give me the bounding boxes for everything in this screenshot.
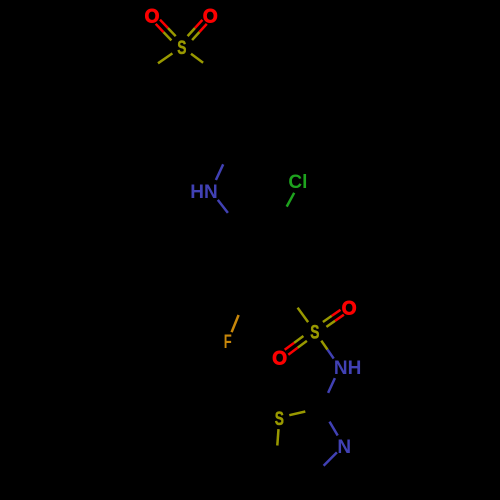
double bond S1=O (left)	[168, 28, 176, 36]
svg-text:HN: HN	[190, 182, 217, 203]
bond N3-C4 (thiazoline ring)	[324, 452, 337, 465]
bond N3=C2 (thiazoline ring)	[330, 422, 338, 436]
double bond S2=O (lower left)	[294, 336, 303, 343]
bond S2-C4 (sulfonyl-aryl)	[298, 308, 309, 322]
bond S3-C5 (thiazoline ring)	[277, 429, 278, 445]
bond N2-C2 (thiazoline)	[328, 378, 335, 393]
svg-text:O: O	[145, 7, 160, 28]
bond S3-C2 (thiazoline ring)	[289, 412, 305, 416]
bond S2-N2 (sulfonamide)	[321, 341, 327, 350]
bond CH2-N1	[216, 164, 223, 180]
svg-text:Cl: Cl	[288, 172, 307, 193]
bond C-F	[232, 315, 239, 332]
svg-text:N: N	[337, 437, 351, 458]
svg-text:S: S	[310, 322, 319, 343]
svg-text:S: S	[177, 38, 186, 59]
double bond S2=O (upper right)	[326, 321, 335, 327]
bond N1-C1 (aniline)	[218, 200, 228, 213]
svg-text:O: O	[203, 7, 218, 28]
svg-text:NH: NH	[334, 358, 361, 379]
svg-text:O: O	[272, 348, 287, 369]
bond S1-C2 (sulfolane)	[191, 54, 203, 63]
bond C-Cl	[287, 193, 295, 207]
svg-text:O: O	[342, 298, 357, 319]
bond S1-C5 (sulfolane)	[158, 53, 172, 63]
svg-text:F: F	[224, 332, 232, 353]
double bond S1=O (right)	[192, 32, 199, 40]
svg-text:S: S	[275, 409, 284, 430]
